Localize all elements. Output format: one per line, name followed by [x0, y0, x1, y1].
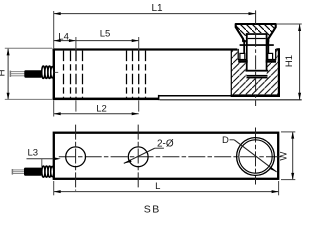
svg-text:SB: SB: [144, 204, 161, 216]
button screw socket: [246, 33, 268, 45]
svg-text:L3: L3: [28, 147, 39, 158]
cable end tick (plan view): [11, 169, 13, 175]
bore bottom thin line: [247, 75, 268, 76]
recess right bracket: [266, 49, 276, 60]
bore bottom dark bar: [247, 76, 268, 78]
recess left notch: [240, 53, 245, 59]
plan view outline: [54, 133, 278, 179]
svg-text:L: L: [155, 181, 160, 192]
washer plate top edge: [240, 44, 274, 46]
block bottom edge: [231, 94, 280, 97]
dimension H: [0, 48, 52, 99]
dimension L: [54, 181, 279, 195]
dimension H1: [277, 24, 302, 100]
hole D outer circle: [237, 138, 275, 176]
bore left wall: [246, 45, 248, 71]
hole 1 circle: [66, 147, 86, 167]
button vertical centerline: [255, 10, 257, 106]
svg-text:D: D: [222, 135, 229, 146]
cable wires (plan view): [12, 170, 25, 174]
recess bottom left bar: [238, 60, 248, 63]
svg-text:W: W: [279, 152, 290, 161]
bottom plane extension line: [160, 99, 302, 100]
dimension L1: [54, 3, 256, 48]
hole 2 vertical centerline: [137, 125, 139, 188]
svg-text:H: H: [0, 69, 7, 76]
washer left side: [243, 41, 245, 59]
hole D inner circle: [239, 140, 272, 173]
recess bottom right bar: [266, 60, 276, 63]
beam bottom edge: [53, 98, 159, 101]
hidden hole lines group 2: [127, 51, 146, 98]
washer right side: [268, 41, 270, 59]
dimension L4: [54, 31, 76, 50]
hidden line at L4 boundary: [75, 51, 77, 98]
cable end tick (side view): [9, 71, 11, 77]
dimension W: [279, 132, 296, 180]
svg-text:L2: L2: [96, 104, 107, 115]
cable gland rings (side view): [42, 66, 54, 78]
hole 2 circle: [128, 147, 148, 167]
svg-text:H1: H1: [284, 55, 295, 67]
cable wires (side view): [10, 72, 25, 76]
label D with leader: [222, 135, 277, 172]
beam top edge right segment: [272, 48, 280, 50]
label 2-phi with leader: [124, 139, 174, 164]
hidden hole lines group 1: [64, 51, 83, 98]
plan horizontal centerline: [59, 156, 282, 158]
svg-text:L1: L1: [151, 3, 163, 14]
recess right notch: [268, 53, 273, 59]
beam body (side view) top edge: [53, 48, 238, 50]
beam step underside line: [158, 95, 231, 97]
block left boundary: [231, 50, 232, 97]
svg-text:L4: L4: [58, 31, 69, 42]
recess left bracket: [238, 49, 247, 60]
beam left edge: [53, 48, 55, 100]
cable (plan view): [24, 168, 42, 176]
mounting block hatched section: [231, 48, 280, 96]
cable (side view): [24, 70, 42, 77]
svg-text:L5: L5: [100, 28, 111, 39]
cable gland rings (plan view): [42, 166, 54, 177]
dimension L5: [76, 28, 139, 50]
dimension L2: [54, 100, 139, 116]
bore bottom screw end line: [246, 70, 269, 72]
dimension L3: [27, 147, 61, 166]
hidden line at L5 boundary: [138, 51, 140, 98]
hole 1 vertical centerline: [75, 125, 77, 191]
bore right wall: [266, 45, 268, 71]
block right edge: [278, 48, 280, 97]
load button head: [236, 24, 276, 41]
cable gland stub centerline: [55, 71, 59, 73]
hole D vertical centerline: [255, 128, 257, 185]
beam step vertical: [158, 95, 160, 100]
